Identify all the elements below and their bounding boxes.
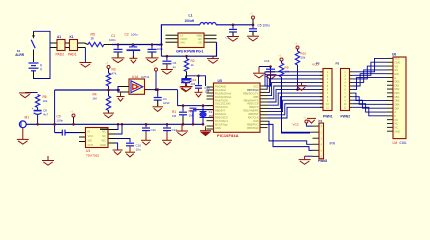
svg-text:PAD1: PAD1 (68, 53, 77, 57)
connector P2 (341, 69, 350, 111)
svg-text:U5: U5 (218, 79, 222, 83)
svg-text:C4: C4 (226, 36, 230, 40)
svg-text:PWN2: PWN2 (341, 114, 351, 118)
svg-text:RB1/AN8/RX: RB1/AN8/RX (243, 109, 258, 113)
svg-text:C2: C2 (125, 33, 129, 37)
svg-text:100uH: 100uH (185, 19, 195, 23)
svg-text:C16: C16 (264, 59, 270, 63)
svg-text:SW: SW (88, 138, 93, 142)
svg-text:RA3/AN3/Vref: RA3/AN3/Vref (215, 95, 231, 99)
svg-text:OSC1/CLKIN: OSC1/CLKIN (215, 102, 231, 106)
wire R9 to IR pin1 (282, 77, 311, 133)
wire 5V rail (161, 42, 216, 56)
LCD connector U6 (393, 57, 406, 139)
resonator X1 (202, 106, 204, 111)
ground under C1 (112, 58, 125, 63)
ground right of 5V rail (212, 56, 214, 58)
IR receiver module (319, 123, 324, 159)
svg-text:DB3: DB3 (395, 92, 400, 95)
svg-text:+5: +5 (278, 55, 281, 58)
wire PAD1 to ground (84, 48, 86, 63)
svg-text:NC: NC (395, 119, 399, 122)
svg-text:U1A: U1A (132, 75, 139, 79)
ground bottom left (47, 156, 49, 160)
ground under microphone (22, 128, 24, 139)
wire wrap PIC pin13 to IR pin5 (268, 124, 313, 150)
ground above IR (307, 118, 316, 123)
capacitor C14b (198, 76, 200, 85)
svg-text:OSC2/CLK: OSC2/CLK (215, 105, 228, 109)
ground under C5 (247, 36, 259, 41)
wire U3 pin1R to W1 (115, 124, 118, 129)
svg-text:NC: NC (395, 123, 399, 126)
bus wires P2 to LCD lower (353, 93, 387, 116)
svg-text:VO: VO (395, 65, 399, 68)
power port R10 top (296, 46, 299, 49)
wire R9 to IR pin2 (282, 77, 313, 132)
resistor R9 pullup (279, 63, 283, 77)
pins PIC right (260, 86, 268, 128)
svg-text:VCC: VCC (293, 122, 300, 126)
svg-text:RB4/AN4/TX: RB4/AN4/TX (244, 98, 259, 102)
svg-text:RB3/CCP: RB3/CCP (247, 102, 259, 106)
capacitor C8 electrolytic coupling (37, 108, 39, 111)
connector P1 (323, 69, 332, 111)
regulator U4 pins (166, 35, 217, 42)
capacitor C10 (126, 143, 134, 146)
switch S1 (31, 31, 35, 62)
svg-text:WC: WC (102, 138, 107, 142)
svg-text:MCLR/Vpp: MCLR/Vpp (215, 122, 228, 126)
capacitor C13 on output (157, 90, 159, 97)
wire PIC VCC riser (259, 67, 271, 87)
svg-text:P4: P4 (319, 119, 323, 123)
resistor R2 (186, 56, 188, 58)
power port +5V top (252, 16, 255, 19)
svg-text:RB6/PGC/TX: RB6/PGC/TX (243, 91, 259, 95)
capacitor C15 series (182, 106, 184, 112)
pins IR (313, 126, 320, 156)
ground under C16 (265, 75, 277, 80)
pins P2 (350, 72, 353, 108)
svg-text:U3: U3 (86, 149, 90, 153)
ground under C10 (125, 152, 135, 157)
capacitor C4 (232, 25, 234, 29)
svg-text:+5: +5 (153, 65, 156, 68)
ground op-amp pin (120, 92, 122, 96)
capacitor C11 (145, 124, 147, 127)
svg-text:RW: RW (395, 73, 400, 76)
svg-text:+5: +5 (70, 111, 73, 114)
resistor R3 divider top (108, 71, 110, 73)
svg-text:RA6: RA6 (253, 119, 259, 123)
svg-text:PAD2: PAD2 (56, 53, 65, 57)
svg-text:RA2/AN2/Vref: RA2/AN2/Vref (215, 91, 231, 95)
svg-text:RA7/OSC1: RA7/OSC1 (215, 119, 228, 123)
ground under C14b (195, 92, 203, 97)
svg-text:10k: 10k (43, 99, 48, 103)
svg-text:RA1/AN1: RA1/AN1 (215, 88, 226, 92)
pins U3 right (108, 130, 115, 144)
svg-text:1M: 1M (172, 114, 177, 118)
wire long rail W1 (26, 123, 203, 125)
capacitor C14a (185, 76, 187, 79)
svg-text:VCC: VCC (395, 58, 400, 61)
svg-text:RB5: RB5 (253, 95, 259, 99)
svg-text:C11: C11 (151, 128, 157, 132)
junction dots input rail (117, 43, 120, 46)
svg-text:10u: 10u (136, 147, 141, 151)
svg-text:DB6: DB6 (395, 104, 400, 107)
svg-text:NC: NC (102, 134, 106, 138)
capacitor C6 (166, 56, 168, 60)
ground under C6 (161, 70, 173, 75)
svg-text:GND: GND (395, 130, 401, 133)
audio amplifier U3 (86, 128, 109, 148)
svg-text:RB0/INT: RB0/INT (249, 112, 259, 116)
svg-text:V: V (40, 67, 43, 71)
svg-text:P2: P2 (316, 61, 320, 65)
svg-text:VCC: VCC (88, 134, 94, 138)
wire op-amp supply drop (155, 73, 157, 90)
svg-text:RB7/PGD: RB7/PGD (247, 88, 259, 92)
wire op-amp input node (55, 89, 120, 91)
svg-text:AI-RR: AI-RR (15, 53, 25, 57)
ground mic bias top (25, 92, 38, 94)
svg-text:NC: NC (395, 127, 399, 130)
svg-text:IN: IN (88, 129, 91, 133)
ground under C13 (152, 107, 163, 112)
svg-text:PIC16F84A: PIC16F84A (217, 134, 239, 138)
battery B1 9V (29, 63, 39, 71)
svg-text:100n: 100n (109, 38, 116, 42)
ground left of C16 (258, 67, 260, 73)
ground under IR wires (299, 160, 311, 165)
power port IR VCC (305, 120, 308, 123)
wire branch to audio chip W2 (54, 124, 56, 132)
wire op-amp to PIC input (178, 90, 214, 106)
ground under C3 (146, 58, 159, 63)
component PAD2 (57, 40, 65, 51)
wire regulator left riser (161, 25, 200, 45)
resistor R10 pullup MCLR (295, 51, 299, 65)
svg-text:IRR: IRR (330, 142, 336, 146)
svg-text:RA5/AN4: RA5/AN4 (215, 112, 226, 116)
wire op-amp output (151, 89, 178, 91)
svg-text:DB7: DB7 (395, 107, 400, 110)
svg-text:DB4: DB4 (395, 96, 400, 99)
pins U3 left (79, 133, 86, 142)
capacitor C2 electrolytic (127, 45, 141, 51)
pins P1 (320, 72, 323, 108)
svg-text:LM: LM (393, 141, 398, 145)
svg-text:U6: U6 (392, 52, 396, 56)
component PAD1 (70, 40, 78, 51)
black bar pin8 mark (100, 128, 108, 130)
svg-text:DB1: DB1 (395, 84, 400, 87)
svg-text:+5: +5 (294, 43, 297, 46)
capacitor C7 electrolytic (186, 72, 188, 79)
ground under C14a (180, 87, 192, 92)
svg-text:4u7: 4u7 (43, 113, 48, 117)
wire top rail after L1 (216, 24, 253, 26)
svg-text:DB2: DB2 (395, 88, 400, 91)
wire wrap PIC pin12 to IR pin4 (268, 121, 313, 144)
power port on W1 left (72, 114, 75, 117)
wire R10 down to bus (297, 65, 299, 90)
bus wires PIC to P1 (265, 72, 323, 118)
microcontroller U5 PIC16F84A (214, 83, 261, 132)
svg-text:P3: P3 (336, 61, 340, 65)
svg-text:TDA7052: TDA7052 (86, 153, 99, 157)
op-amp U1A (129, 79, 145, 94)
pin wires PAD boxes (50, 43, 85, 48)
ground under PAD1 (79, 63, 91, 68)
ground under C4 (227, 37, 239, 42)
wire battery loop top (34, 31, 51, 78)
svg-text:GND: GND (100, 143, 106, 147)
svg-text:+5: +5 (303, 117, 306, 120)
svg-text:L1: L1 (189, 14, 193, 18)
svg-text:PWN3: PWN3 (318, 159, 327, 163)
svg-text:DB0: DB0 (395, 81, 400, 84)
svg-text:RA0/AN0: RA0/AN0 (215, 85, 226, 89)
svg-text:104: 104 (191, 82, 196, 86)
svg-text:OUT: OUT (88, 143, 94, 147)
svg-text:1k: 1k (91, 37, 95, 41)
ground on W1 under cluster (181, 124, 183, 130)
ground under R4 (103, 113, 114, 118)
svg-text:10k: 10k (301, 56, 306, 60)
svg-text:RB0/INT: RB0/INT (215, 109, 225, 113)
ground right of cluster (205, 126, 207, 130)
bus wires P2 to LCD upper (353, 58, 387, 89)
svg-text:RB7/PGD: RB7/PGD (247, 126, 259, 130)
junction dots 5V rail (166, 55, 169, 58)
resistor R5 (88, 42, 104, 46)
svg-text:016L: 016L (400, 141, 408, 145)
wire input rail (112, 44, 161, 46)
svg-text:100u: 100u (131, 33, 138, 37)
svg-text:GPU R PWR PG-1: GPU R PWR PG-1 (176, 49, 204, 53)
svg-text:NC: NC (102, 129, 106, 133)
capacitor C1 (117, 45, 119, 49)
svg-text:RA7/CLK: RA7/CLK (248, 115, 259, 119)
wire U3 pin2R to W1 (115, 124, 122, 134)
svg-text:M1: M1 (25, 116, 30, 120)
ground under C7 (181, 87, 193, 92)
svg-text:LM741: LM741 (141, 75, 150, 79)
svg-text:RS: RS (395, 69, 399, 72)
svg-text:C5 100u: C5 100u (258, 24, 270, 28)
capacitor C16 (270, 67, 272, 69)
power port divider top (107, 66, 110, 69)
pins LCD (387, 58, 393, 131)
svg-text:+5: +5 (105, 62, 108, 65)
capacitor C3 (151, 45, 153, 49)
wire IR pin6 to ground (305, 155, 313, 157)
svg-text:RA4/T0CKI: RA4/T0CKI (215, 98, 228, 102)
svg-text:K1: K1 (70, 35, 74, 39)
pins PIC left (207, 87, 214, 129)
inductor L1 (200, 23, 216, 25)
svg-text:GND: GND (395, 61, 401, 64)
svg-text:1M: 1M (93, 96, 98, 100)
wire VDD branch (186, 76, 206, 86)
capacitor C12 (166, 124, 168, 127)
wire into op-amp inputs (118, 87, 120, 93)
svg-text:PWN1: PWN1 (323, 114, 333, 118)
ground under C11 (141, 140, 151, 145)
ground under C2 (129, 58, 137, 63)
capacitor on osc2 wire (190, 108, 197, 111)
junction dots W1 (36, 123, 39, 126)
svg-text:1u: 1u (173, 65, 177, 69)
svg-text:1k: 1k (191, 63, 195, 67)
svg-text:A1W: A1W (163, 101, 170, 105)
wire U3 pin4R to ground (115, 143, 118, 150)
svg-text:VCC: VCC (253, 85, 259, 89)
microphone M1 (19, 121, 26, 128)
wire VCC to IR pin1 (306, 125, 312, 126)
svg-text:47k: 47k (112, 71, 117, 75)
svg-text:DB5: DB5 (395, 100, 400, 103)
wire battery bottom stem (33, 71, 35, 79)
power port R9 top (280, 58, 283, 61)
svg-text:1M: 1M (189, 114, 194, 118)
wire osc2 to PIC (193, 109, 214, 111)
capacitor C9 series on W2 (62, 130, 65, 136)
svg-text:RB6/PGC: RB6/PGC (247, 122, 259, 126)
ground on bus (301, 82, 303, 85)
capacitor C5 (252, 25, 254, 28)
svg-text:RA6/OSC2: RA6/OSC2 (215, 115, 228, 119)
svg-text:GND: GND (215, 126, 221, 130)
svg-text:VIN: VIN (180, 41, 185, 45)
svg-text:100n: 100n (57, 119, 64, 123)
ground U3 pin4 (113, 150, 123, 155)
resistor R6 mic bias (35, 95, 39, 108)
junction dots top rail (232, 24, 235, 27)
regulator U4 (178, 33, 204, 48)
svg-text:CE: CE (198, 41, 202, 45)
svg-text:+: + (32, 107, 34, 111)
svg-text:100n: 100n (157, 47, 164, 51)
wire U3 pin3R to C10 (115, 139, 130, 143)
svg-text:RB2/TX: RB2/TX (249, 105, 258, 109)
power port op-amp supply (155, 68, 158, 71)
svg-text:+5: +5 (250, 13, 253, 16)
resistor R4 divider bottom (108, 90, 110, 96)
svg-text:A1: A1 (57, 35, 61, 39)
ground under C12 (162, 140, 172, 145)
wire feedback vertical (54, 90, 56, 124)
